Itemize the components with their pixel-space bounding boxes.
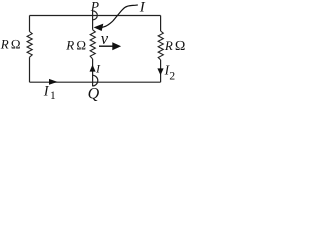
svg-text:R: R bbox=[65, 37, 74, 52]
arrowhead current I1 right (bottom rail) bbox=[49, 79, 58, 85]
svg-text:v: v bbox=[101, 29, 109, 48]
arrowhead of curved arrow bbox=[94, 24, 104, 31]
wire middle branch top with hop at P bbox=[92, 11, 94, 30]
svg-text:I: I bbox=[139, 0, 146, 16]
hop arc at P bbox=[93, 11, 98, 20]
wire left branch lower bbox=[29, 57, 31, 82]
svg-text:Q: Q bbox=[88, 86, 100, 103]
arrowhead current I2 down bbox=[157, 68, 163, 75]
arrowhead current I up (middle branch) bbox=[90, 65, 96, 72]
wire right branch lower bbox=[160, 60, 162, 82]
wire top rail bbox=[30, 15, 161, 17]
wire middle branch lower bbox=[92, 59, 94, 86]
wire right branch upper bbox=[160, 16, 162, 32]
resistor R left bbox=[27, 32, 32, 58]
wire left branch upper bbox=[29, 16, 31, 32]
svg-text:R: R bbox=[0, 36, 9, 51]
hop arc at Q bbox=[92, 75, 98, 86]
curved arrow for current I entering P bbox=[102, 5, 138, 27]
svg-text:Ω: Ω bbox=[175, 39, 186, 54]
resistor R right bbox=[158, 31, 163, 60]
v arrowhead bbox=[112, 42, 121, 50]
svg-text:1: 1 bbox=[50, 90, 56, 102]
svg-text:Ω: Ω bbox=[76, 37, 86, 52]
wire bottom rail bbox=[30, 81, 161, 83]
svg-text:I: I bbox=[43, 84, 50, 100]
svg-text:I: I bbox=[95, 62, 101, 76]
resistor R middle bbox=[90, 30, 95, 59]
svg-text:R: R bbox=[164, 38, 173, 53]
v arrow shaft bbox=[99, 45, 113, 47]
svg-text:2: 2 bbox=[169, 70, 175, 82]
svg-text:Ω: Ω bbox=[11, 36, 21, 51]
svg-text:P: P bbox=[90, 0, 99, 14]
